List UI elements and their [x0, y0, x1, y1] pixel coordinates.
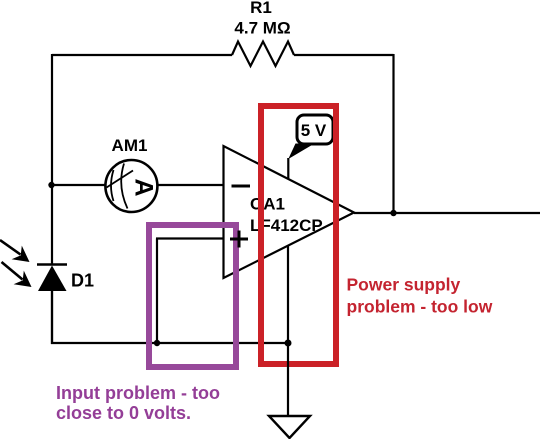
svg-text:5 V: 5 V	[301, 121, 327, 140]
label power supply problem	[347, 275, 493, 317]
ammeter AM1	[105, 160, 157, 212]
svg-text:problem - too low: problem - too low	[347, 297, 493, 317]
svg-text:R1: R1	[250, 0, 272, 17]
svg-text:Power supply: Power supply	[347, 275, 461, 295]
wire V+ pin	[287, 158, 289, 180]
wire left vertical	[51, 54, 53, 344]
purple rectangle input problem highlight	[149, 225, 236, 367]
photodiode light arrow 2	[2, 262, 32, 287]
label input problem	[56, 383, 220, 423]
5V callout box	[297, 115, 333, 144]
op-amp minus sign	[232, 185, 251, 188]
5V callout tail	[288, 144, 314, 160]
svg-text:close to 0 volts.: close to 0 volts.	[56, 403, 191, 423]
wire noninverting branch horizontal	[156, 237, 224, 239]
node output junction	[390, 210, 396, 216]
photodiode D1	[37, 265, 67, 345]
wire right vertical	[392, 54, 394, 213]
node inverting input junction	[48, 182, 54, 188]
node V- junction	[285, 340, 292, 347]
svg-text:OA1: OA1	[250, 195, 285, 214]
wire ammeter to op-amp	[157, 184, 223, 186]
op-amp U1 triangle	[224, 146, 355, 278]
red rectangle power supply highlight	[261, 106, 336, 364]
svg-text:Input problem - too: Input problem - too	[56, 383, 220, 403]
ground	[269, 416, 310, 438]
wire ammeter left	[51, 184, 105, 186]
wire noninverting branch vertical	[156, 239, 158, 344]
svg-text:4.7 MΩ: 4.7 MΩ	[234, 19, 290, 38]
svg-text:A: A	[130, 178, 158, 196]
wire top horizontal	[52, 54, 394, 56]
wire bottom horizontal	[51, 342, 289, 344]
wire output horizontal	[354, 212, 540, 214]
resistor R1	[232, 42, 294, 67]
op-amp plus sign	[230, 231, 248, 248]
svg-text:D1: D1	[71, 271, 94, 291]
wire V- pin to ground	[287, 246, 289, 417]
node noninverting branch junction	[154, 340, 160, 346]
photodiode light arrow 1	[0, 240, 30, 262]
svg-text:AM1: AM1	[112, 136, 148, 155]
